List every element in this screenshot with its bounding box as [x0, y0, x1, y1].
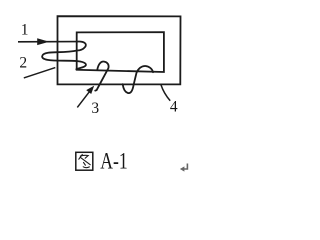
svg-text:A-1: A-1 — [100, 148, 127, 174]
leader line from label 4 — [161, 85, 170, 101]
caption glyph: Chinese character 图 (hand drawn) — [76, 152, 93, 170]
outer frame rectangle — [58, 16, 181, 84]
svg-text:3: 3 — [91, 100, 99, 117]
thread winding: curl 1, left loop, curl 2 — [42, 42, 86, 70]
arrow from label 3 — [77, 91, 90, 107]
thread winding: lower loop below frame and hump 2 (thread end hook) — [123, 66, 153, 93]
svg-text:1: 1 — [21, 22, 29, 39]
paragraph return mark (gray) — [183, 164, 187, 170]
inner frame rectangle — [77, 32, 164, 72]
leader line from label 2 — [24, 68, 56, 78]
thread winding: hump 1 with descending tail — [95, 62, 108, 91]
arrow from label 1 (lead-in wire) — [18, 41, 77, 43]
svg-text:2: 2 — [19, 54, 27, 71]
svg-text:4: 4 — [170, 99, 178, 116]
